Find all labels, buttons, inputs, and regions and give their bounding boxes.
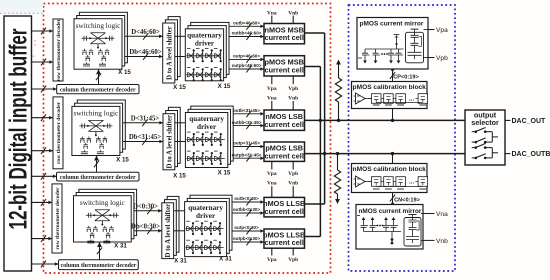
svg-text:current cell: current cell [265, 238, 304, 247]
wire: buffer to row decoder 2 upper [32, 114, 53, 121]
wire/label outpb&lt;46:60&gt; (MSB) [229, 63, 264, 72]
row thermometer decoder (MSB) [53, 18, 63, 81]
svg-text:Vna: Vna [267, 95, 277, 101]
input buffer block [4, 16, 33, 271]
D to A level shifter (LLSB) [162, 196, 179, 258]
wire: switching logic to level shifter Db (MSB) [125, 53, 163, 60]
svg-text:CP<0:19>: CP<0:19> [393, 75, 419, 81]
wire: nMOS LLSB cell output to rail B [305, 203, 325, 205]
quaternary driver (MSB) [185, 22, 229, 81]
bias stubs Vpa/Vpb (pMOS LSB bottom) [267, 161, 298, 177]
svg-text:driver: driver [196, 212, 216, 220]
wire: pMOS mirror to pMOS calibration block (CP bus) [390, 68, 395, 81]
svg-text:column thermometer decoder: column thermometer decoder [60, 175, 136, 181]
svg-text:column thermometer decoder: column thermometer decoder [60, 263, 136, 269]
svg-text:outp<31:45>: outp<31:45> [233, 141, 260, 146]
svg-text:quaternary: quaternary [187, 31, 222, 39]
wire: nMOS calibration block to nMOS mirror (CN bus) [390, 193, 395, 206]
svg-text:DAC_OUTB: DAC_OUTB [512, 151, 550, 158]
svg-text:Vna: Vna [267, 10, 277, 16]
svg-text:Vnb: Vnb [436, 238, 448, 245]
svg-text:X 15: X 15 [218, 170, 231, 177]
wire: buffer to column decoder 2 [32, 173, 57, 180]
svg-text:Vpb: Vpb [288, 171, 298, 177]
pMOS LSB current cell [264, 142, 305, 161]
wire: pMOS calibration block to bus1 [392, 109, 394, 121]
pMOS current mirror [357, 18, 448, 70]
wire/label outb&lt;46:60&gt; (MSB) [229, 21, 264, 30]
svg-text:Db<31:45>: Db<31:45> [129, 134, 161, 141]
wire/label DAC_OUTB [505, 151, 550, 158]
svg-text:Vpa: Vpa [267, 171, 277, 177]
wire: switching logic to level shifter D (MSB) [125, 33, 163, 40]
svg-text:...: ... [409, 179, 414, 186]
svg-text:current cell: current cell [265, 33, 304, 42]
nMOS LSB current cell [264, 110, 305, 130]
wire: buffer to row decoder 3 lower [32, 235, 53, 242]
junction calibration/bus2 [391, 152, 394, 155]
svg-text:row thermometer decoder: row thermometer decoder [55, 187, 61, 250]
wire: column decoder to switching logic (LSB) [94, 156, 99, 173]
svg-text:row thermometer decoder: row thermometer decoder [56, 101, 62, 164]
rail B (nMOS cells to bus2) [324, 33, 326, 204]
svg-text:nMOS calibration block: nMOS calibration block [353, 166, 427, 173]
svg-text:X 15: X 15 [116, 157, 129, 164]
load resistor R1 (to AVDD) [335, 60, 341, 121]
wire: column decoder to switching logic (LLSB) [97, 242, 102, 260]
svg-text:D to A level shifter: D to A level shifter [165, 204, 172, 258]
wire: column decoder to switching logic (MSB) [96, 69, 101, 84]
svg-text:outb<46:60>: outb<46:60> [233, 21, 260, 26]
nMOS current mirror [356, 205, 448, 250]
svg-text:current cell: current cell [265, 207, 304, 216]
D to A level shifter (MSB) [163, 17, 181, 83]
pMOS MSB current cell [264, 56, 305, 76]
svg-text:Vnb: Vnb [288, 95, 298, 101]
wire/label outp&lt;31:45&gt; (LSB) [233, 141, 264, 150]
wire/label outpb&lt;31:45&gt; (LSB) [232, 152, 264, 161]
svg-text:selector: selector [471, 118, 499, 127]
wire: pMOS LLSB cell output to rail A [305, 236, 321, 238]
column thermometer decoder (LLSB) [59, 260, 139, 270]
svg-text:D to A level shifter: D to A level shifter [166, 26, 173, 80]
bias stubs Vpa/Vpb (pMOS LLSB bottom) [267, 248, 298, 263]
switching logic block (LLSB) [74, 189, 137, 243]
nMOS calibration block [352, 164, 428, 193]
wires: level shifter to quaternary driver (LSB) [175, 123, 186, 142]
wire: buffer to row decoder 2 lower [32, 147, 53, 154]
wires: level shifter to quaternary driver (MSB) [175, 36, 186, 56]
bias stubs Vna/Vnb (nMOS MSB top) [267, 10, 298, 23]
wire: switching logic to level shifter Db (LSB) [123, 138, 163, 145]
wire: buffer to row decoder 1 upper [32, 28, 54, 35]
row thermometer decoder (LLSB) [52, 184, 62, 253]
svg-text:Vpa: Vpa [267, 257, 277, 263]
wire: buffer to column decoder 1 [32, 86, 57, 93]
svg-text:...: ... [409, 96, 414, 103]
wire/label outbb&lt;0:30&gt; (LLSB) [232, 207, 264, 216]
nMOS MSB current cell [264, 24, 305, 44]
junction rail A / bus1 [319, 119, 322, 122]
wire/label DAC_OUT [505, 118, 546, 125]
D to A level shifter (LSB) [163, 107, 180, 169]
svg-text:Vnb: Vnb [288, 10, 298, 16]
wire: buffer to column decoder 3 [32, 261, 59, 268]
svg-text:D<0:30>: D<0:30> [133, 204, 158, 211]
svg-text:switching logic: switching logic [76, 21, 122, 30]
svg-text:D<46:60>: D<46:60> [131, 29, 160, 36]
nMOS LLSB current cell [263, 197, 305, 217]
svg-text:X 31: X 31 [114, 243, 127, 250]
svg-text:12-bit Digital input buffer: 12-bit Digital input buffer [5, 28, 33, 229]
quaternary driver (LLSB) [185, 195, 232, 256]
svg-text:current cell: current cell [265, 66, 304, 75]
svg-text:outb<0:30>: outb<0:30> [234, 196, 259, 201]
pMOS LLSB current cell [263, 229, 305, 248]
bias stubs Vna/Vnb (nMOS LSB top) [267, 95, 298, 110]
svg-text:Vpb: Vpb [288, 257, 298, 263]
svg-text:D<31:45>: D<31:45> [131, 116, 160, 123]
svg-text:outbb<31:45>: outbb<31:45> [232, 120, 262, 125]
wire: buffer to row decoder 1 lower [32, 59, 54, 66]
rail A (pMOS cells to bus1) [319, 67, 321, 237]
svg-text:CN<0:19>: CN<0:19> [394, 198, 421, 204]
wire: bus2 to nMOS calibration block [392, 154, 394, 164]
wire/label outp&lt;46:60&gt; (MSB) [229, 54, 264, 63]
svg-text:outp<0:30>: outp<0:30> [234, 225, 259, 230]
svg-text:outbb<0:30>: outbb<0:30> [233, 207, 261, 212]
pMOS calibration block [352, 82, 428, 109]
svg-text:outp<46:60>: outp<46:60> [233, 54, 260, 59]
wire/label outb&lt;0:30&gt; (LLSB) [232, 196, 264, 205]
wire: switching logic to level shifter D (LLSB) [134, 207, 162, 214]
svg-text:Vpa: Vpa [436, 27, 448, 34]
svg-text:X 15: X 15 [173, 173, 186, 180]
wire: switching logic to level shifter D (LSB) [123, 119, 163, 126]
svg-text:Db<0:30>: Db<0:30> [131, 224, 160, 231]
svg-text:driver: driver [195, 39, 215, 47]
magenta dashed artifact line [0, 13, 44, 58]
wire: switching logic to level shifter Db (LLSB) [134, 227, 162, 234]
switching logic block (MSB) [74, 12, 127, 69]
svg-text:X 15: X 15 [173, 84, 186, 91]
svg-text:Vnb: Vnb [288, 180, 298, 186]
svg-text:outpb<46:60>: outpb<46:60> [232, 63, 262, 68]
wire: nMOS MSB cell output to rail B [305, 32, 325, 34]
svg-text:pMOS calibration block: pMOS calibration block [353, 84, 427, 91]
switching logic block (LSB) [72, 100, 125, 156]
junction calibration/bus1 [391, 119, 394, 122]
svg-text:current cell: current cell [265, 120, 304, 129]
svg-text:outb<31:45>: outb<31:45> [233, 108, 260, 113]
wire: pMOS MSB cell output to rail A [305, 66, 321, 68]
wire/label outb&lt;31:45&gt; (LSB) [233, 108, 264, 117]
blue dashed frame (bias/calibration section) [349, 5, 456, 271]
junction rail B / bus2 [323, 152, 326, 155]
wire: buffer to row decoder 3 upper [32, 199, 53, 206]
svg-text:Vna: Vna [267, 180, 277, 186]
svg-text:outbb<46:60>: outbb<46:60> [232, 31, 262, 36]
wire/label outbb&lt;31:45&gt; (LSB) [232, 120, 264, 129]
svg-text:X 31: X 31 [219, 256, 232, 263]
wire: DAC_OUT bus (bus1) [305, 119, 466, 121]
svg-text:DAC_OUT: DAC_OUT [512, 118, 547, 125]
row thermometer decoder (LSB) [53, 97, 63, 169]
svg-text:nMOS current mirror: nMOS current mirror [359, 208, 422, 215]
svg-text:switching logic: switching logic [80, 198, 126, 207]
junction R1 / bus1 [337, 119, 340, 122]
svg-text:current cell: current cell [265, 151, 304, 160]
quaternary driver (LSB) [185, 106, 233, 167]
svg-text:column thermometer decoder: column thermometer decoder [60, 87, 136, 93]
svg-text:D to A level shifter: D to A level shifter [166, 115, 173, 169]
faint background tint (jpeg halo) top-left [0, 0, 43, 13]
bias stubs Vpa/Vpb (pMOS MSB bottom) [267, 76, 298, 92]
wire/label outpb&lt;0:30&gt; (LLSB) [232, 236, 264, 245]
load resistor R2 (to AVSS) [334, 154, 340, 204]
svg-text:Vpb: Vpb [288, 86, 298, 92]
svg-text:Vna: Vna [436, 211, 448, 218]
svg-text:Vpb: Vpb [436, 55, 448, 62]
wire/label outp&lt;0:30&gt; (LLSB) [232, 225, 264, 234]
svg-text:pMOS current mirror: pMOS current mirror [360, 21, 424, 28]
column thermometer decoder (MSB) [57, 85, 139, 94]
wire/label outbb&lt;46:60&gt; (MSB) [229, 31, 264, 40]
svg-text:Vpa: Vpa [267, 86, 277, 92]
bias stubs Vna/Vnb (nMOS LLSB top) [267, 180, 298, 197]
svg-text:driver: driver [197, 123, 217, 131]
junction R2 / bus2 [336, 152, 339, 155]
column thermometer decoder (LSB) [57, 172, 140, 181]
svg-text:quaternary: quaternary [188, 204, 223, 212]
svg-text:row thermometer decoder: row thermometer decoder [56, 18, 62, 81]
svg-text:quaternary: quaternary [189, 115, 224, 123]
svg-text:X 31: X 31 [174, 258, 187, 265]
output selector block [465, 110, 505, 165]
wire: DAC_OUTB bus (bus2) [305, 153, 466, 155]
svg-text:Db<46:60>: Db<46:60> [129, 49, 161, 56]
svg-text:outpb<31:45>: outpb<31:45> [232, 152, 262, 157]
red dashed frame (digital/driver section) [44, 4, 331, 274]
svg-text:X 15: X 15 [118, 69, 131, 76]
svg-text:X 15: X 15 [218, 83, 231, 90]
svg-text:outpb<0:30>: outpb<0:30> [233, 236, 261, 241]
svg-text:switching logic: switching logic [74, 109, 120, 118]
wires: level shifter to quaternary driver (LLSB) [174, 211, 185, 231]
